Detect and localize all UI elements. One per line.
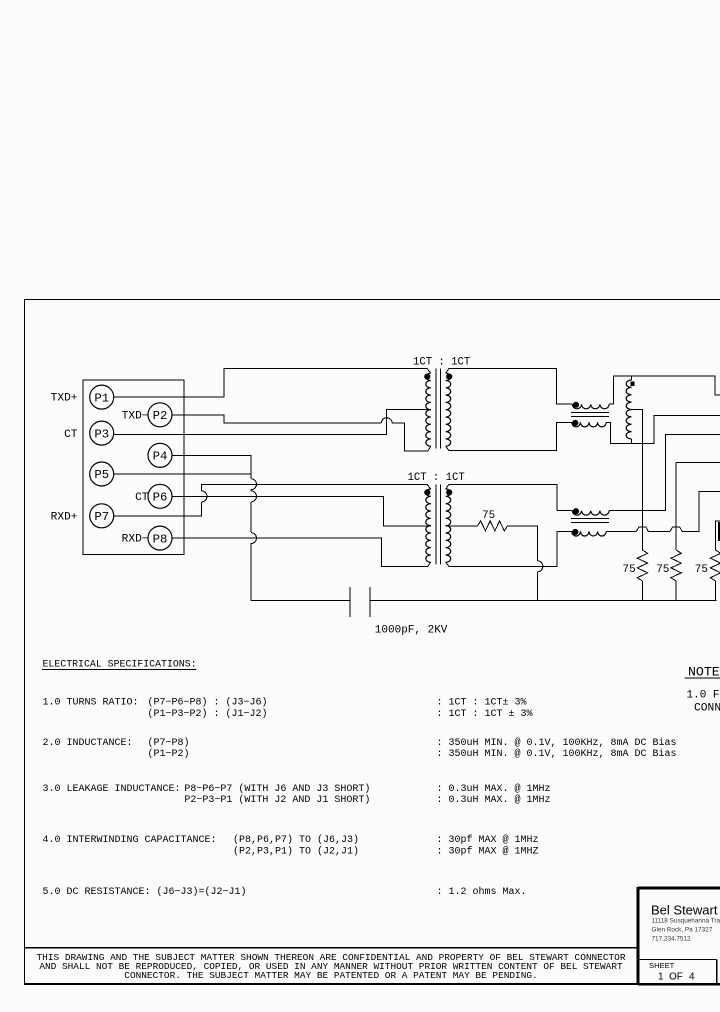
svg-text:(P2,P3,P1) TO (J2,J1): (P2,P3,P1) TO (J2,J1) (233, 846, 359, 858)
svg-text:(P7−P8): (P7−P8) (148, 737, 190, 749)
wire P2 to T1 primary bottom (segment a) (172, 415, 381, 423)
pin P2 (148, 403, 172, 427)
svg-text:1CT : 1CT: 1CT : 1CT (408, 472, 465, 484)
svg-text:: 350uH MIN. @ 0.1V, 100KHz,: : 350uH MIN. @ 0.1V, 100KHz, 8mA DC Bias (437, 737, 677, 749)
transformer T1 core (435, 369, 437, 449)
wire R2 top to output (676, 462, 720, 464)
resistor R4 75 ohm (478, 521, 508, 531)
transformer T1 secondary winding (446, 373, 451, 446)
svg-text:NOTES:: NOTES: (688, 665, 720, 680)
wire P8 to T2 primary bottom (172, 538, 431, 566)
svg-text:5.0 DC RESISTANCE: (J6−J3)=(J2: 5.0 DC RESISTANCE: (J6−J3)=(J2−J1) (43, 886, 247, 898)
shunt inductor L3 winding (626, 380, 631, 439)
hop L2 bottom wire over R2 lead (670, 527, 682, 532)
shunt inductor L3 polarity dot (631, 382, 634, 385)
svg-text:75: 75 (623, 564, 636, 576)
resistor R1 75 ohm (637, 550, 647, 581)
svg-text:TXD−: TXD− (122, 411, 149, 423)
svg-text:75: 75 (656, 564, 669, 576)
wire R4 to cap node (segment a) (508, 526, 538, 561)
pin P6 (148, 484, 172, 508)
transformer T2 polarity dot (secondary) (447, 490, 452, 495)
svg-text:TXD+: TXD+ (51, 393, 78, 405)
svg-text:(P8,P6,P7) TO (J6,J3): (P8,P6,P7) TO (J6,J3) (233, 834, 359, 846)
wire T1 secondary top to choke L1 (446, 369, 573, 405)
hop P7 wire over P6 wire (202, 491, 208, 502)
transformer T1 polarity dot (primary) (425, 374, 430, 379)
choke L1 polarity dot top (573, 402, 578, 407)
svg-text:Glen Rock, Pa 17327: Glen Rock, Pa 17327 (652, 927, 713, 934)
wire P3 (CT) to T1 primary center tap (114, 410, 431, 435)
wire bus cap right side (370, 600, 717, 602)
svg-text:75: 75 (482, 510, 495, 522)
title block sheet rule (639, 959, 716, 961)
choke L1 bottom winding (572, 422, 606, 427)
wire choke L2 bottom to output (segment a) (606, 530, 636, 532)
resistor R2 bottom lead (675, 581, 677, 601)
svg-text:P4: P4 (153, 450, 168, 464)
resistor R2 lead (675, 463, 677, 551)
svg-text:1CT : 1CT: 1CT : 1CT (413, 357, 470, 369)
svg-text:CT: CT (64, 429, 78, 441)
pin P1 (90, 385, 114, 409)
resistor R3 bottom lead (715, 581, 717, 601)
svg-text:P8: P8 (153, 532, 168, 546)
shunt inductor L3 top lead (631, 376, 633, 380)
svg-text:P2−P3−P1 (WITH J2 AND J1 SHORT: P2−P3−P1 (WITH J2 AND J1 SHORT) (184, 794, 370, 806)
svg-text:SHEET: SHEET (649, 961, 675, 970)
svg-text:1.0 TURNS RATIO:: 1.0 TURNS RATIO: (43, 698, 139, 709)
pin P4 (148, 443, 172, 467)
wire P1 to T1 primary top (114, 369, 431, 398)
svg-text:: 0.3uH MAX. @ 1MHz: : 0.3uH MAX. @ 1MHz (437, 794, 551, 806)
svg-text:1.0 FO: 1.0 FO (687, 690, 720, 702)
title block sheet divider (716, 960, 718, 985)
wire L3 center tap to R1 (632, 410, 643, 551)
choke L2 polarity dot bottom (573, 529, 578, 534)
wire P4/P5 vertical (segment c) (250, 502, 252, 532)
drawing border frame (25, 300, 720, 986)
wire choke L1 top to output bus (609, 376, 720, 404)
svg-text:Bel Stewart C: Bel Stewart C (651, 903, 720, 918)
wire P4 join P5 vertical (segment a) (172, 455, 251, 478)
wire T1 secondary bottom to choke L1 (446, 422, 572, 450)
svg-text:CONNECTOR. THE SUBJECT MATTER: CONNECTOR. THE SUBJECT MATTER MAY BE PAT… (124, 970, 537, 981)
svg-text:: 1.2 ohms Max.: : 1.2 ohms Max. (437, 886, 527, 898)
wire R3 top to output (716, 521, 720, 550)
wire P7 up (segment a) (114, 502, 202, 516)
choke L2 polarity dot top (573, 509, 578, 514)
svg-text:75: 75 (695, 564, 708, 576)
disclaimer box top line (25, 947, 639, 949)
svg-text:2.0 INDUCTANCE:: 2.0 INDUCTANCE: (43, 738, 133, 749)
partial shunt inductor L4 at edge (718, 522, 720, 541)
wire P5 to P4 vertical (114, 473, 251, 475)
capacitor C1 plates (349, 587, 351, 617)
svg-text:ELECTRICAL SPECIFICATIONS:: ELECTRICAL SPECIFICATIONS: (43, 659, 197, 670)
svg-text:RXD−: RXD− (122, 534, 149, 546)
svg-text:: 30pf MAX @ 1MHz: : 30pf MAX @ 1MHz (437, 834, 539, 846)
wire P7 to T2 primary top (202, 484, 431, 491)
svg-text:P6: P6 (153, 491, 168, 505)
svg-text:P2: P2 (153, 409, 168, 423)
title block frame (638, 887, 720, 890)
pin P8 (148, 526, 172, 550)
resistor R2 75 ohm (671, 550, 681, 581)
hop P2 wire over T1 CT wire (381, 418, 392, 424)
svg-text:4.0 INTERWINDING CAPACITANCE:: 4.0 INTERWINDING CAPACITANCE: (43, 835, 217, 846)
shunt inductor L3 bottom lead (631, 439, 633, 443)
wire choke L2 bottom to output (segment c) (682, 491, 720, 531)
svg-text:: 0.3uH MAX. @ 1MHz: : 0.3uH MAX. @ 1MHz (437, 783, 551, 795)
wire T2 secondary CT to resistor R4 (446, 525, 478, 527)
transformer T1 primary winding (426, 373, 431, 446)
svg-text:717.234.7512: 717.234.7512 (652, 936, 692, 943)
wire R4 to cap node (segment b) (536, 572, 538, 601)
hop P4/P5 wire over P6 wire (251, 491, 257, 502)
svg-text:P3: P3 (94, 427, 109, 441)
svg-text:P5: P5 (94, 468, 109, 482)
wire choke L2 bottom to output (segment b) (648, 530, 670, 532)
transformer T2 primary winding (426, 489, 431, 562)
svg-text:CT: CT (135, 492, 149, 504)
choke L1 core (571, 412, 609, 414)
wire T2 secondary top to choke L2 (446, 484, 573, 510)
svg-text:OF: OF (669, 972, 683, 983)
transformer T2 core (435, 484, 437, 564)
svg-text:RXD+: RXD+ (51, 512, 78, 524)
choke L1 top winding (572, 404, 609, 409)
choke L2 core (571, 518, 609, 520)
connector J (RJ45 plug side) outline (83, 380, 184, 555)
wire choke L1 bottom to node (606, 416, 720, 444)
svg-text:(P1−P3−P2) : (J1−J2): (P1−P3−P2) : (J1−J2) (148, 708, 268, 720)
wire P6 to T2 primary center tap (172, 496, 431, 526)
svg-text:1000pF, 2KV: 1000pF, 2KV (375, 625, 448, 637)
svg-text:P1: P1 (94, 391, 109, 405)
svg-text:: 350uH MIN. @ 0.1V, 100KHz,: : 350uH MIN. @ 0.1V, 100KHz, 8mA DC Bias (437, 748, 677, 760)
svg-text:P7: P7 (94, 510, 109, 524)
svg-text:(P7−P6−P8) : (J3−J6): (P7−P6−P8) : (J3−J6) (148, 697, 268, 709)
svg-text:P8−P6−P7 (WITH J6 AND J3 SHORT: P8−P6−P7 (WITH J6 AND J3 SHORT) (184, 783, 370, 795)
transformer T1 polarity dot (secondary) (447, 374, 452, 379)
svg-text:(P1−P2): (P1−P2) (148, 748, 190, 760)
svg-text:CONN: CONN (694, 703, 720, 715)
pin P5 (90, 462, 114, 486)
pin P7 (90, 504, 114, 528)
hop P4/P5 wire over P7 wire (251, 479, 257, 490)
choke L1 polarity dot bottom (573, 420, 578, 425)
transformer T2 polarity dot (primary) (425, 490, 430, 495)
hop P4/P5 wire over P8 wire (251, 533, 257, 544)
transformer T2 secondary winding (446, 489, 451, 562)
wire T2 secondary bottom to choke L2 (446, 531, 572, 566)
resistor R1 bottom lead (641, 581, 643, 601)
svg-text:: 1CT : 1CT ± 3%: : 1CT : 1CT ± 3% (437, 709, 533, 720)
hop L2 bottom wire over R1 lead (636, 527, 648, 532)
resistor R3 75 ohm (710, 550, 720, 581)
wire P4/P5 vertical (segment b) (250, 490, 252, 491)
wire P4/P5 vertical to bottom bus (251, 543, 350, 600)
svg-text:3.0 LEAKAGE INDUCTANCE:: 3.0 LEAKAGE INDUCTANCE: (43, 784, 181, 795)
choke L2 top winding (572, 511, 609, 516)
pin P3 (90, 421, 114, 445)
svg-text:: 30pf MAX @ 1MHZ: : 30pf MAX @ 1MHZ (437, 846, 539, 858)
wire P2 to T1 primary bottom (segment b) (392, 423, 431, 451)
svg-text:4: 4 (689, 972, 695, 983)
hop R4 wire over T2 bottom wire (537, 561, 543, 572)
choke L2 bottom winding (572, 531, 606, 536)
svg-text:1: 1 (658, 972, 664, 983)
svg-text:: 1CT : 1CT± 3%: : 1CT : 1CT± 3% (437, 698, 527, 709)
wire choke L2 top to output (609, 434, 720, 510)
svg-text:11118 Susquehanna Trail: 11118 Susquehanna Trail (652, 918, 720, 925)
